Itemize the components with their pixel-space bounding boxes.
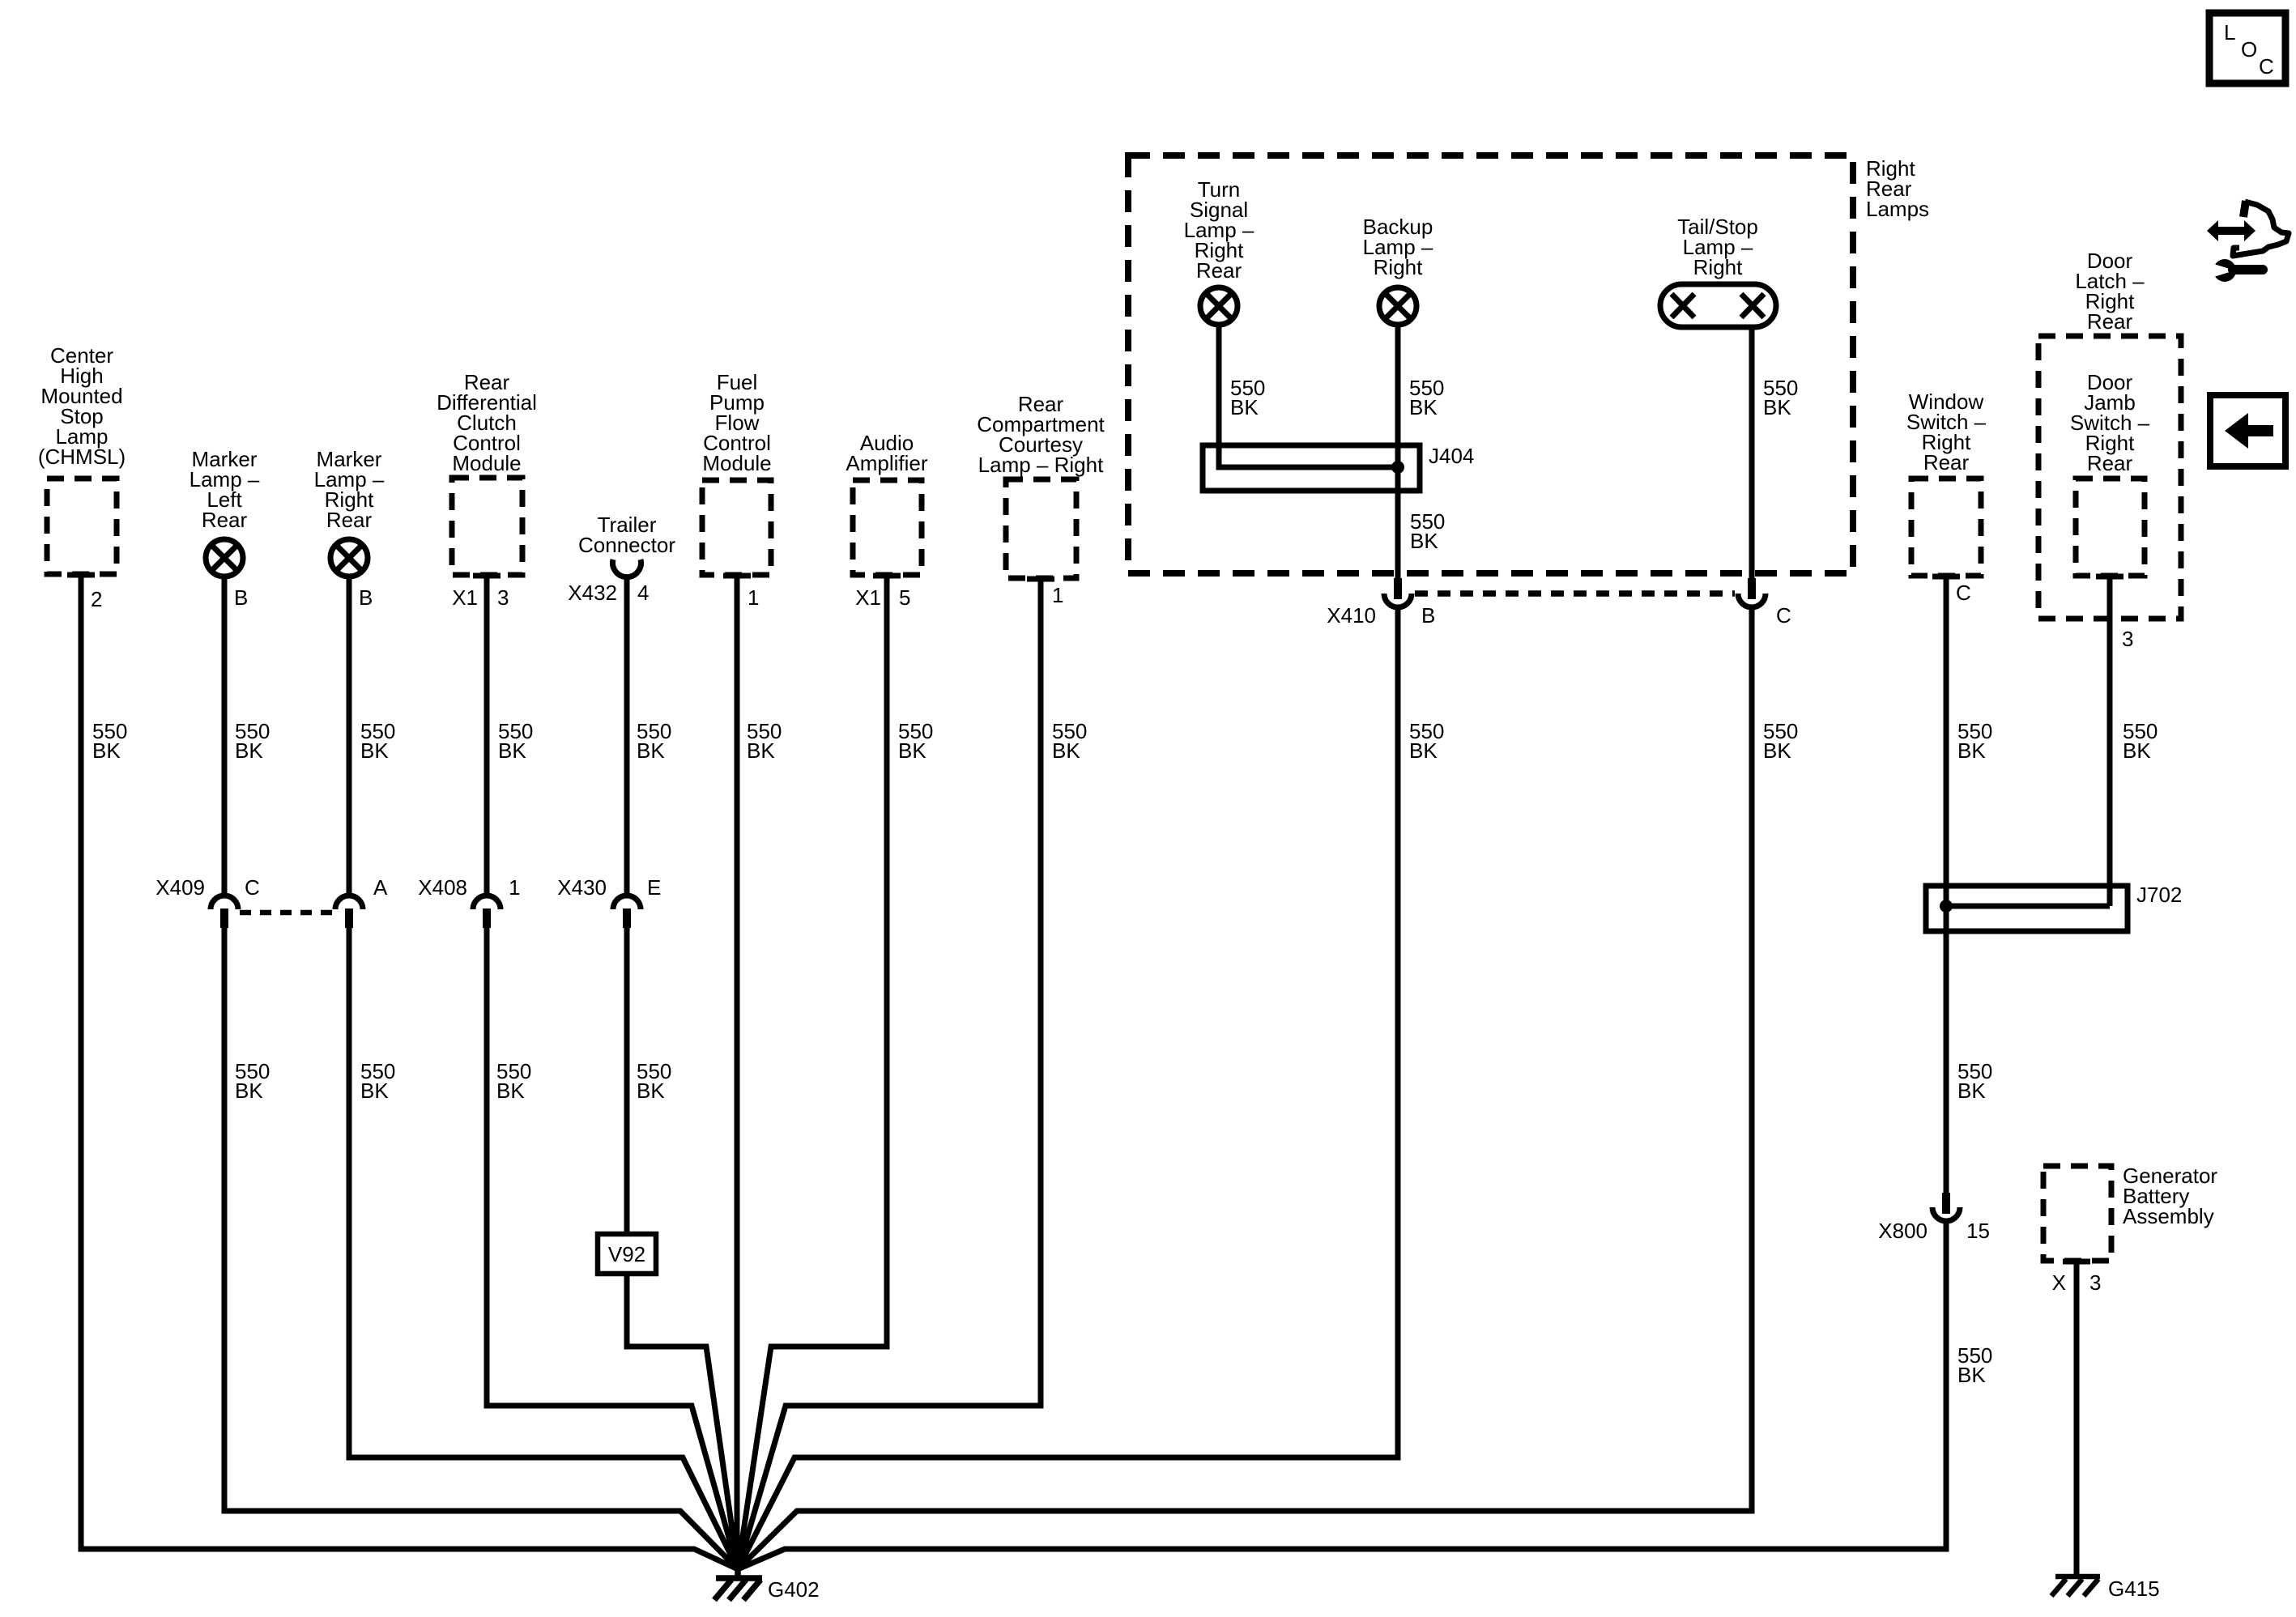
wire Rear Differential upper 550 BK [484,575,490,896]
pin tick Rear Differential [473,573,501,579]
svg-text:BK: BK [1763,395,1791,419]
svg-text:BK: BK [2123,738,2151,763]
component Rear Compartment Courtesy Lamp dashed box [1006,479,1076,578]
svg-text:BK: BK [1409,395,1438,419]
ground G415 symbol [2051,1577,2100,1596]
pin tick Generator Battery Assembly [2063,1259,2090,1265]
component Audio Amplifier dashed box [853,480,922,575]
svg-text:Rear: Rear [2087,451,2133,475]
lamp Backup Lamp bulb [1379,287,1416,325]
component Window Switch Right Rear label [1906,389,1987,474]
connector X408 pin 1 [473,896,501,928]
svg-text:X1: X1 [452,585,478,610]
svg-text:Lamps: Lamps [1866,197,1929,221]
svg-text:BK: BK [1409,738,1438,763]
pin tick Door Jamb Switch [2096,574,2123,580]
svg-text:BK: BK [92,738,121,763]
svg-text:BK: BK [1230,395,1259,419]
component Turn Signal Lamp Right Rear label [1184,177,1254,283]
wire Marker Lamp Left Rear upper 550 BK [222,577,228,896]
svg-text:G415: G415 [2108,1577,2160,1601]
svg-text:X432: X432 [568,581,617,605]
svg-text:BK: BK [1957,1363,1986,1387]
wire Window Switch to splice J702 [1944,576,1949,1193]
svg-text:2: 2 [91,587,102,611]
node junction dot J702 [1940,900,1953,913]
component Marker Lamp Right Rear label [314,447,385,532]
svg-text:X409: X409 [155,875,205,900]
component Trailer Connector label [578,513,675,557]
component Fuel Pump Flow Control Module dashed box [702,480,771,575]
connector X430 pin E [613,896,641,928]
wire Marker Lamp Right Rear lower 550 BK [349,928,738,1569]
svg-text:Lamp – Right: Lamp – Right [978,453,1104,477]
svg-text:BK: BK [235,738,263,763]
wire J702 internal link [1946,904,2110,909]
svg-text:BK: BK [637,1079,665,1103]
svg-text:Rear: Rear [326,508,373,532]
wire V92 to ground G402 [627,1274,738,1569]
component Tail Stop Lamp Right label [1677,215,1758,279]
wire X800 to ground G402 [738,1221,1946,1569]
svg-text:C: C [1776,603,1791,628]
svg-text:C: C [245,875,260,900]
wire Generator Battery Assembly to ground G415 [2074,1261,2080,1577]
svg-text:Rear: Rear [202,508,248,532]
pin tick Fuel Pump [723,573,751,579]
pin tick Audio Amplifier [873,573,901,579]
svg-text:B: B [1421,603,1435,628]
svg-text:5: 5 [899,585,910,610]
wire Trailer Connector to splice V92 [624,928,630,1234]
lamp Turn Signal Lamp bulb [1200,287,1237,325]
svg-text:3: 3 [2122,627,2133,651]
component Door Jamb Switch Right Rear label [2070,370,2150,475]
svg-text:BK: BK [1957,738,1986,763]
svg-text:1: 1 [748,585,759,610]
svg-text:BK: BK [496,1079,525,1103]
connector X409 pin C [211,896,238,928]
svg-text:X430: X430 [557,875,607,900]
svg-text:Right: Right [1693,255,1743,279]
svg-text:Assembly: Assembly [2123,1204,2214,1228]
wire Backup Lamp to J404 and X410 [1395,325,1401,578]
svg-text:BK: BK [360,1079,389,1103]
svg-text:BK: BK [1763,738,1791,763]
svg-text:BK: BK [747,738,775,763]
svg-text:C: C [1956,581,1971,605]
ground G402 symbol [714,1563,762,1600]
svg-text:A: A [373,875,388,900]
wire backup lamp X410 to ground G402 [738,607,1398,1569]
lamp Marker Lamp Right Rear bulb [330,539,368,577]
svg-text:Rear: Rear [1196,258,1242,283]
svg-text:X: X [2052,1270,2066,1295]
lamp Tail Stop Lamp dual filament [1660,284,1776,327]
connector X410 body dashed link [1415,590,1735,597]
svg-text:BK: BK [637,738,665,763]
component Audio Amplifier label [846,431,927,475]
component Generator Battery Assembly label [2123,1164,2217,1228]
wire Tail Stop Lamp to X410 [1749,327,1755,578]
svg-text:(CHMSL): (CHMSL) [38,445,126,469]
component CHMSL Center High Mounted Stop Lamp label [38,343,126,469]
svg-text:15: 15 [1966,1219,1990,1243]
svg-text:Module: Module [452,451,521,475]
svg-text:BK: BK [1410,529,1438,553]
lamp Marker Lamp Left Rear bulb [206,539,243,577]
svg-text:V92: V92 [608,1242,645,1266]
wire Fuel Pump module to ground G402 [735,575,740,1569]
node junction dot J404 [1391,461,1404,474]
splice V92 box [598,1234,656,1274]
connector marker right pin A [335,896,363,928]
svg-text:BK: BK [1957,1079,1986,1103]
svg-text:L: L [2224,20,2235,45]
svg-text:X800: X800 [1878,1219,1928,1243]
svg-text:G402: G402 [768,1577,820,1602]
icon left arrow legend box [2210,395,2285,466]
svg-text:Module: Module [702,451,771,475]
connector X410 pin C [1738,578,1766,607]
svg-text:X408: X408 [418,875,467,900]
wire Rear Compartment Courtesy Lamp to ground G402 [738,578,1041,1569]
wire Rear Differential lower 550 BK [487,928,738,1569]
svg-text:1: 1 [1052,583,1063,607]
component Fuel Pump Flow Control Module label [702,370,771,475]
connector X410 pin B [1384,578,1412,607]
svg-text:BK: BK [1052,738,1080,763]
wire Marker Lamp Left Rear lower 550 BK [224,928,738,1569]
wire Door Jamb Switch to splice J702 [2107,576,2113,906]
svg-text:Right: Right [1374,255,1423,279]
svg-text:BK: BK [898,738,926,763]
pin tick Courtesy Lamp [1027,577,1054,582]
wire Audio Amplifier to ground G402 [738,575,887,1569]
component Door Latch dashed box [2038,336,2181,619]
component Door Latch Right Rear label [2075,249,2145,334]
pin tick Window Switch [1932,574,1960,580]
component Marker Lamp Left Rear label [190,447,260,532]
component Rear Differential Clutch Control Module dashed box [452,478,522,575]
svg-text:E: E [647,875,661,900]
connector X800 pin 15 [1932,1193,1960,1221]
component Generator Battery Assembly dashed box [2043,1166,2111,1261]
splice J702 box [1926,886,2128,931]
wire Marker Lamp Right Rear upper 550 BK [347,577,352,896]
wire CHMSL ground 550 BK [81,574,738,1569]
svg-text:BK: BK [235,1079,263,1103]
pin tick CHMSL [67,572,95,578]
svg-text:X410: X410 [1327,603,1376,628]
svg-text:J702: J702 [2136,883,2182,907]
svg-text:J404: J404 [1429,444,1474,468]
svg-text:4: 4 [637,581,649,605]
svg-text:Amplifier: Amplifier [846,451,927,475]
svg-text:B: B [234,585,248,610]
wire tail stop X410 to ground G402 [738,607,1752,1569]
svg-text:BK: BK [498,738,526,763]
svg-text:BK: BK [360,738,389,763]
connector Trailer Connector cavity symbol [612,560,641,577]
svg-text:C: C [2259,54,2274,79]
component Rear Differential Clutch Control Module label [437,370,537,475]
svg-text:Connector: Connector [578,533,675,557]
component Rear Compartment Courtesy Lamp label [977,392,1105,477]
wire Trailer Connector upper 550 BK [624,578,630,896]
component CHMSL dashed box [47,479,117,574]
svg-text:X1: X1 [855,585,881,610]
node Right Rear Lamps dashed enclosure [1128,155,1853,573]
svg-text:3: 3 [2089,1270,2101,1295]
wire Turn Signal Lamp to splice J404 [1219,325,1396,467]
splice J404 box [1203,445,1420,491]
connector X409 body dashed link [240,910,334,916]
svg-text:Rear: Rear [2087,309,2133,334]
component Window Switch dashed box [1911,479,1981,576]
svg-text:3: 3 [497,585,509,610]
icon door adjustment with wrench [2207,201,2289,282]
svg-text:B: B [359,585,373,610]
component Backup Lamp Right label [1363,215,1433,279]
node Right Rear Lamps label [1866,156,1929,221]
svg-text:Rear: Rear [1923,450,1970,474]
component Door Jamb Switch dashed box [2076,479,2145,576]
svg-text:1: 1 [509,875,520,900]
svg-text:O: O [2241,37,2257,62]
icon LOC legend box [2209,13,2285,83]
